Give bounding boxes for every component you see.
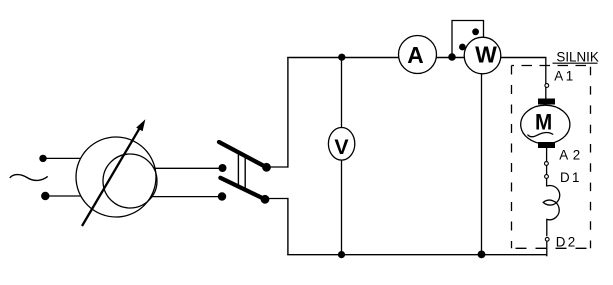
svg-text:W: W: [475, 41, 497, 67]
wire input top to autotransformer: [43, 157, 81, 159]
wire motor branch vertical: [545, 57, 547, 99]
wire input bottom to autotransformer: [45, 195, 81, 197]
autotransformer T1 primary winding: [76, 137, 156, 217]
svg-text:SILNIK: SILNIK: [556, 50, 598, 65]
wire voltmeter branch: [341, 57, 343, 255]
wire autotransformer output top to switch: [154, 167, 223, 169]
svg-text:M: M: [535, 109, 552, 135]
wattmeter voltage bracket: [452, 21, 484, 58]
svg-text:V: V: [334, 135, 349, 159]
wire wattmeter voltage branch down: [481, 74, 483, 255]
wattmeter W: [464, 37, 501, 74]
node bottom bus / voltmeter: [338, 251, 345, 258]
wire left downer: [287, 198, 289, 255]
AC source tilde: [10, 175, 48, 181]
motor M: [521, 99, 570, 149]
dashed enclosure SILNIK: [512, 66, 591, 249]
switch S1 blade bottom: [220, 178, 265, 200]
terminal A1 circle: [545, 84, 549, 88]
terminal A2 circle: [545, 162, 549, 166]
wire switch bottom pole to left downer: [265, 198, 288, 200]
voltmeter V: [328, 128, 354, 161]
switch S1 link bar right: [244, 156, 246, 190]
svg-text:A: A: [407, 42, 423, 68]
switch S1 link bar left: [237, 152, 239, 186]
switch S1 fixed contact bottom: [218, 192, 226, 200]
node bottom bus / wattmeter: [478, 251, 486, 259]
node wattmeter current input: [448, 53, 456, 61]
wire bottom bus: [287, 254, 547, 256]
node top bus / voltmeter: [338, 54, 345, 61]
autotransformer T1 secondary winding: [103, 154, 157, 208]
input terminal dot bottom: [41, 192, 49, 200]
wattmeter voltage terminal dot upper: [472, 28, 479, 35]
wire left riser up: [287, 57, 289, 168]
switch S1 blade top: [219, 142, 267, 167]
field winding coil: [543, 185, 560, 236]
wire motor to field winding: [546, 148, 548, 187]
wire autotransformer output bottom to switch: [152, 196, 223, 198]
wire switch top pole to left riser: [267, 166, 289, 168]
switch S1 fixed contact top: [219, 164, 227, 172]
wire field winding to bottom bus: [546, 241, 548, 256]
switch S1 pivot dot bottom: [261, 195, 270, 204]
terminal D2 circle: [545, 237, 549, 241]
SILNIK underline: [553, 62, 598, 64]
autotransformer wiper arrow: [82, 119, 145, 226]
wattmeter voltage terminal dot lower: [459, 44, 466, 51]
switch S1 pivot dot top: [262, 163, 271, 172]
input terminal dot top: [39, 155, 46, 162]
wire top bus: [287, 57, 546, 59]
ammeter A: [399, 36, 437, 74]
terminal D1 circle: [545, 175, 549, 179]
